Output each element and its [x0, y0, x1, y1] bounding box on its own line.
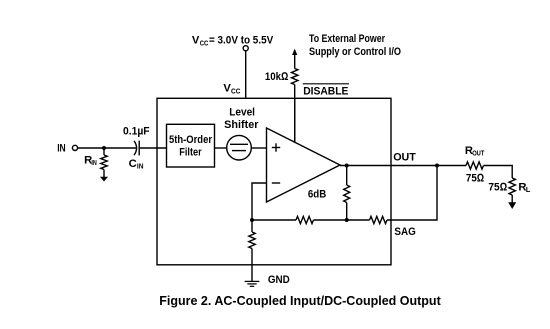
- resistor 10k pull-up: [292, 69, 298, 85]
- op-amp U2: [267, 128, 341, 202]
- label RL: [518, 181, 530, 194]
- svg-text:Level: Level: [229, 107, 255, 119]
- ground arrow below RIN: [100, 177, 108, 182]
- wire SAG to out: [387, 166, 437, 221]
- ground arrow below RL: [508, 202, 516, 209]
- svg-text:CC: CC: [200, 38, 209, 47]
- arrow to external supply: [292, 49, 297, 69]
- wire DISABLE net: [294, 85, 296, 143]
- wire filter to level shifter: [215, 147, 227, 149]
- wire disable into op-amp: [294, 98, 296, 142]
- wire IN to capacitor: [78, 147, 137, 149]
- svg-text:V: V: [192, 35, 200, 47]
- label CIN: [129, 158, 144, 171]
- svg-text:75Ω: 75Ω: [488, 181, 507, 193]
- wire VCC supply to box: [245, 51, 247, 99]
- wire capacitor to filter: [140, 147, 167, 149]
- level shifter U1: [227, 135, 252, 160]
- node inverting junction: [250, 218, 254, 222]
- wire ROUT to RL: [484, 166, 513, 179]
- wire op-amp output OUT: [340, 165, 466, 167]
- net label DISABLE (active low): [303, 84, 349, 98]
- wire feedback mid: [314, 219, 370, 221]
- resistor ROUT: [466, 162, 484, 169]
- annotation To External Power Supply or Control I/O: [309, 33, 401, 58]
- svg-text:Figure 2. AC-Coupled Input/DC-: Figure 2. AC-Coupled Input/DC-Coupled Ou…: [159, 294, 441, 308]
- node feedback junction: [345, 218, 349, 222]
- capacitor CIN: [134, 141, 139, 156]
- svg-text:DISABLE: DISABLE: [303, 86, 349, 98]
- svg-text:OUT: OUT: [393, 152, 416, 164]
- label Level Shifter: [224, 107, 259, 132]
- node input junction: [102, 146, 106, 150]
- resistor feedback divider (6dB): [344, 166, 350, 221]
- svg-text:Supply or Control I/O: Supply or Control I/O: [309, 46, 401, 58]
- wire inverting input feedback: [252, 183, 267, 220]
- terminal IN: [72, 145, 77, 150]
- block 5th-Order Filter: [167, 124, 215, 167]
- node SAG-OUT junction: [435, 164, 439, 168]
- resistor to ground (gain set): [249, 220, 255, 281]
- svg-text:IN: IN: [137, 162, 144, 171]
- svg-text:0.1µF: 0.1µF: [123, 126, 150, 138]
- wire level shifter to op-amp: [251, 147, 266, 149]
- svg-text:To External Power: To External Power: [309, 33, 386, 45]
- svg-text:Shifter: Shifter: [224, 119, 259, 131]
- terminal VCC supply: [243, 46, 248, 51]
- svg-text:6dB: 6dB: [308, 189, 326, 201]
- resistor feedback R1: [296, 216, 314, 223]
- svg-text:IN: IN: [91, 158, 96, 167]
- IC boundary box: [157, 98, 391, 264]
- resistor RIN: [101, 148, 107, 177]
- node output junction: [345, 164, 349, 168]
- ground symbol: [245, 281, 260, 286]
- svg-text:10kΩ: 10kΩ: [265, 71, 289, 83]
- wire feedback line: [252, 219, 296, 221]
- label RIN: [84, 154, 97, 167]
- pin label VCC: [223, 83, 240, 96]
- resistor SAG R2: [370, 216, 388, 223]
- svg-text:IN: IN: [57, 143, 65, 155]
- svg-text:C: C: [129, 158, 137, 170]
- svg-text:CC: CC: [231, 86, 241, 95]
- svg-text:Filter: Filter: [179, 147, 202, 159]
- svg-text:75Ω: 75Ω: [466, 172, 485, 184]
- svg-text:L: L: [526, 185, 531, 194]
- label ROUT: [465, 145, 485, 158]
- svg-text:= 3.0V to 5.5V: = 3.0V to 5.5V: [209, 35, 274, 47]
- svg-text:SAG: SAG: [394, 226, 416, 238]
- svg-text:5th-Order: 5th-Order: [169, 134, 213, 146]
- svg-text:GND: GND: [268, 274, 290, 286]
- supply label VCC = 3.0V to 5.5V: [192, 35, 274, 48]
- svg-text:OUT: OUT: [472, 149, 485, 158]
- resistor RL: [509, 178, 515, 203]
